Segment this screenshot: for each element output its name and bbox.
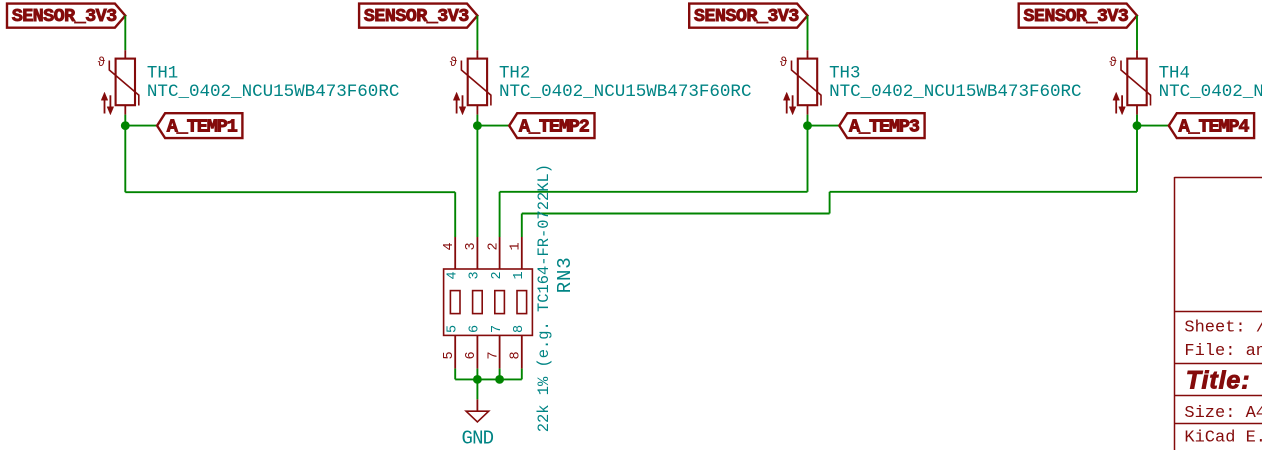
svg-text:2: 2 — [486, 242, 501, 250]
svg-text:NTC_0402_NCU15WB473F60RC: NTC_0402_NCU15WB473F60RC — [147, 82, 400, 102]
svg-text:3: 3 — [468, 271, 483, 279]
svg-text:NTC_0402_NCU15WB473F60RC: NTC_0402_NCU15WB473F60RC — [1159, 82, 1262, 102]
svg-text:8: 8 — [512, 325, 527, 333]
svg-text:RN3: RN3 — [554, 257, 576, 293]
svg-text:SENSOR_3V3: SENSOR_3V3 — [1023, 6, 1129, 27]
svg-text:5: 5 — [445, 325, 460, 333]
svg-text:4: 4 — [445, 271, 460, 279]
svg-text:A_TEMP4: A_TEMP4 — [1179, 116, 1250, 137]
svg-text:8: 8 — [509, 351, 524, 359]
svg-text:A_TEMP2: A_TEMP2 — [519, 116, 590, 137]
svg-text:NTC_0402_NCU15WB473F60RC: NTC_0402_NCU15WB473F60RC — [499, 82, 752, 102]
svg-text:TH1: TH1 — [147, 64, 178, 83]
svg-text:KiCad E.D.A. kicad 6.0: KiCad E.D.A. kicad 6.0 — [1184, 429, 1262, 448]
svg-text:7: 7 — [486, 351, 501, 359]
svg-text:1: 1 — [509, 242, 524, 250]
svg-text:6: 6 — [464, 351, 479, 359]
svg-text:ϑ: ϑ — [98, 54, 106, 69]
svg-text:File: analog.kicad_sch: File: analog.kicad_sch — [1184, 342, 1262, 361]
svg-text:GND: GND — [462, 427, 495, 449]
svg-text:3: 3 — [464, 242, 479, 250]
svg-text:SENSOR_3V3: SENSOR_3V3 — [694, 6, 800, 27]
svg-text:ϑ: ϑ — [450, 54, 458, 69]
svg-text:7: 7 — [490, 325, 505, 333]
svg-text:A_TEMP3: A_TEMP3 — [849, 116, 920, 137]
svg-text:ϑ: ϑ — [780, 54, 788, 69]
svg-text:1: 1 — [512, 271, 527, 279]
svg-text:SENSOR_3V3: SENSOR_3V3 — [12, 6, 118, 27]
svg-text:4: 4 — [442, 242, 457, 250]
svg-text:Size: A4: Size: A4 — [1184, 404, 1262, 423]
svg-text:A_TEMP1: A_TEMP1 — [167, 116, 238, 137]
svg-text:TH2: TH2 — [499, 64, 530, 83]
svg-text:6: 6 — [468, 325, 483, 333]
svg-text:ϑ: ϑ — [1109, 54, 1117, 69]
svg-text:Title:: Title: — [1186, 366, 1251, 394]
svg-text:5: 5 — [442, 351, 457, 359]
svg-text:TH4: TH4 — [1159, 64, 1190, 83]
svg-text:22k 1% (e.g. TC164-FR-0722KL): 22k 1% (e.g. TC164-FR-0722KL) — [535, 164, 553, 432]
svg-text:NTC_0402_NCU15WB473F60RC: NTC_0402_NCU15WB473F60RC — [829, 82, 1082, 102]
svg-text:SENSOR_3V3: SENSOR_3V3 — [364, 6, 470, 27]
svg-text:2: 2 — [490, 271, 505, 279]
svg-text:Sheet: /: Sheet: / — [1184, 318, 1262, 337]
svg-text:TH3: TH3 — [829, 64, 860, 83]
